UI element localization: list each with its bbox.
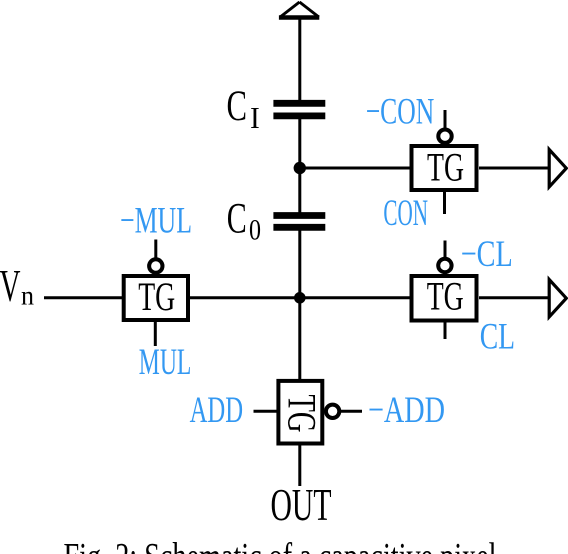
transmission gate U3 (CL) bbox=[412, 274, 477, 321]
bubble U2 bbox=[149, 259, 162, 272]
wire U3 to buffer bbox=[479, 296, 549, 299]
bubble U3 bbox=[438, 259, 451, 272]
svg-text:TG: TG bbox=[138, 274, 175, 319]
stub CON bbox=[443, 192, 446, 214]
svg-text:−CON: −CON bbox=[366, 92, 435, 133]
label Vn bbox=[0, 260, 34, 311]
svg-text:V: V bbox=[0, 260, 21, 311]
stub MUL bbox=[154, 321, 157, 346]
bubble U1 bbox=[438, 130, 451, 143]
svg-text:n: n bbox=[21, 280, 34, 310]
svg-text:C: C bbox=[227, 83, 248, 130]
svg-text:0: 0 bbox=[249, 213, 261, 246]
wire ADD stub bbox=[254, 410, 277, 413]
svg-text:CL: CL bbox=[480, 317, 515, 358]
svg-text:−MUL: −MUL bbox=[120, 200, 192, 241]
wire -ADD stub bbox=[341, 410, 362, 413]
capacitor C_I bbox=[273, 103, 325, 116]
wire Vn to TG U2 bbox=[44, 296, 123, 299]
svg-text:TG: TG bbox=[427, 274, 464, 319]
label C_I bbox=[227, 83, 260, 135]
buffer top right bbox=[549, 150, 566, 187]
svg-text:OUT: OUT bbox=[271, 479, 332, 530]
buffer mid right bbox=[549, 280, 566, 317]
stub CL bbox=[444, 321, 447, 339]
capacitor C0 bbox=[273, 216, 325, 228]
svg-text:I: I bbox=[250, 100, 260, 135]
svg-text:Fig. 2: Schematic of a capacit: Fig. 2: Schematic of a capacitive pixel bbox=[64, 536, 497, 554]
label C_0 bbox=[227, 195, 261, 246]
bubble U4 bbox=[326, 405, 339, 418]
svg-text:ADD: ADD bbox=[190, 390, 244, 431]
svg-text:TG: TG bbox=[280, 395, 325, 433]
wire U1 to buffer bbox=[479, 167, 549, 170]
stub -CON bbox=[444, 110, 447, 129]
svg-text:C: C bbox=[227, 195, 247, 242]
svg-text:MUL: MUL bbox=[139, 342, 192, 383]
node B junction dot bbox=[294, 292, 306, 304]
wire U2 to node B to TG U3 bbox=[190, 296, 412, 299]
wire top vertical bbox=[298, 17, 301, 101]
transmission gate U1 (CON) bbox=[412, 145, 477, 191]
svg-text:−ADD: −ADD bbox=[368, 390, 445, 431]
stub -CL bbox=[444, 241, 447, 260]
transmission gate U2 (MUL) bbox=[124, 274, 188, 320]
svg-text:−CL: −CL bbox=[461, 234, 513, 275]
wire between capacitors bbox=[298, 119, 301, 213]
node A junction dot bbox=[294, 162, 306, 174]
stub -MUL bbox=[154, 240, 157, 260]
wire C0 to bottom TG bbox=[298, 231, 301, 380]
svg-text:TG: TG bbox=[427, 145, 464, 190]
supply triangle bbox=[279, 2, 319, 18]
wire OUT bbox=[298, 446, 301, 487]
wire node to TG U1 bbox=[300, 167, 412, 170]
transmission gate U4 (ADD) bbox=[278, 381, 324, 444]
svg-text:CON: CON bbox=[383, 193, 428, 234]
